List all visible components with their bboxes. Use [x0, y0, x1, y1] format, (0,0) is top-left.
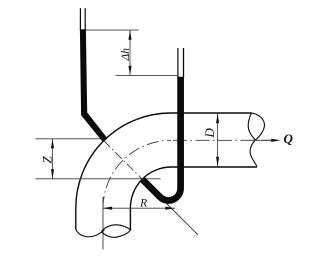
right pipe break (lens + tail)	[248, 113, 264, 166]
flow arrow shaft Q	[252, 139, 272, 141]
svg-text:Q: Q	[284, 131, 294, 146]
arrowhead Z top	[51, 139, 54, 148]
pipe inner wall (right wall + inner arc + bottom edge)	[130, 167, 257, 230]
vertical pipe centerline	[102, 197, 104, 250]
left manometer tube wall left (above liquid)	[79, 8, 81, 30]
bend centerline arc	[103, 140, 171, 208]
dimension line Z	[52, 139, 54, 179]
arrowhead Q	[271, 139, 280, 142]
left manometer tube wall right (above liquid)	[84, 8, 86, 30]
arrowhead dh bottom	[128, 66, 131, 76]
arrowhead R right	[165, 207, 175, 210]
arrowhead R left	[103, 207, 113, 210]
svg-text:R: R	[139, 198, 147, 210]
horizontal pipe centerline	[173, 139, 273, 141]
left manometer tube filled column	[80, 29, 108, 142]
Z bottom leader	[36, 178, 161, 180]
dimension line R	[103, 207, 176, 209]
arrowhead Z bottom	[51, 169, 54, 178]
pipe outer wall (left wall + outer arc + top edge)	[76, 113, 252, 230]
svg-text:Δh: Δh	[120, 48, 132, 62]
liquid level leader left tube	[86, 29, 139, 31]
arrowhead dh top	[128, 30, 131, 40]
dimension line D	[217, 114, 219, 167]
arrowhead D bottom	[216, 157, 219, 167]
svg-text:D: D	[202, 128, 217, 139]
dimension line dh	[129, 30, 131, 75]
arrowhead D top	[216, 114, 219, 124]
right pitot tube wall left (above liquid)	[177, 48, 179, 77]
svg-text:Z: Z	[39, 156, 54, 164]
right pitot tube filled column with J-hook	[143, 77, 181, 201]
right pitot tube wall right (above liquid)	[183, 48, 185, 77]
liquid level leader right tube	[116, 74, 178, 76]
radial line through taps and bend center	[104, 141, 198, 235]
Z top leader	[36, 138, 104, 140]
bottom pipe break (tail + lens)	[76, 225, 131, 238]
